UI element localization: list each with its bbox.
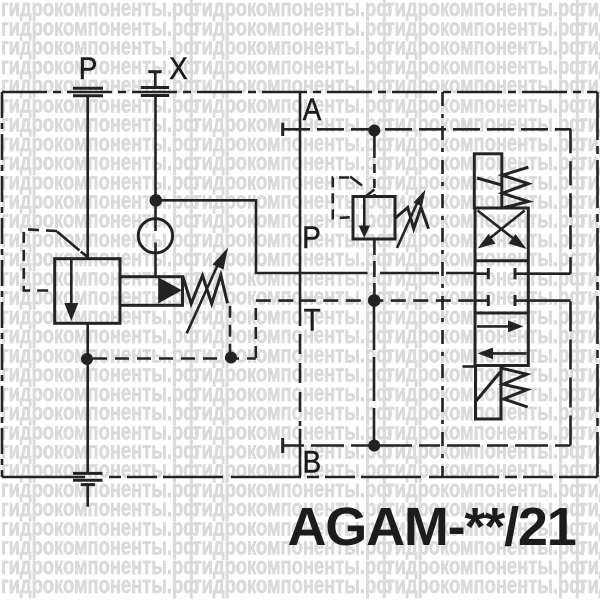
junction dot B bbox=[368, 440, 380, 452]
svg-text:A: A bbox=[303, 92, 322, 127]
dc valve pilot stub bbox=[463, 365, 476, 368]
junction dot A bbox=[368, 125, 380, 137]
wire pilot valve to T bbox=[373, 239, 376, 295]
label P mid bbox=[302, 220, 320, 255]
drain dashed from spring end bbox=[229, 306, 232, 352]
enclosure frame bottom bbox=[2, 476, 598, 479]
dc valve center blocked ports bbox=[475, 268, 528, 306]
enclosure frame right bbox=[596, 92, 599, 477]
relief seat chamber rectangle bbox=[120, 277, 183, 306]
relief adjust arrow bbox=[187, 248, 228, 334]
junction dot T bbox=[368, 294, 381, 307]
wire through orifice bbox=[154, 219, 157, 277]
svg-text:гидрокомпоненты.рф: гидрокомпоненты.рф bbox=[194, 570, 392, 598]
junction dot drain P line bbox=[81, 353, 93, 365]
wire X pilot line bbox=[154, 96, 157, 219]
svg-text:B: B bbox=[303, 445, 321, 480]
dc valve top spring box bbox=[474, 154, 502, 208]
port B tick bbox=[281, 438, 284, 453]
pilot line diagonal to P inlet bbox=[81, 252, 88, 257]
main relief cartridge body bbox=[55, 259, 120, 324]
label A bbox=[303, 92, 322, 127]
junction dot drain spring bbox=[225, 352, 237, 364]
port P label bbox=[79, 51, 97, 86]
svg-text:P: P bbox=[302, 220, 320, 255]
wire T line dashed bbox=[256, 299, 475, 302]
relief poppet triangle bbox=[158, 277, 182, 303]
orifice circle bbox=[138, 219, 172, 253]
pilot relief flow arrow bbox=[359, 190, 375, 239]
wire A dot to pilot valve bbox=[373, 136, 376, 197]
svg-text:T: T bbox=[304, 303, 321, 338]
svg-text:гидрокомпоненты.рф: гидрокомпоненты.рф bbox=[580, 570, 600, 598]
dc valve bottom spring bbox=[476, 368, 528, 407]
port X plug cap bbox=[148, 72, 161, 88]
port X label bbox=[169, 51, 188, 86]
pilot relief adjust arrow bbox=[397, 190, 426, 249]
svg-text:X: X bbox=[169, 51, 188, 86]
label B bbox=[303, 445, 321, 480]
enclosure separator line bbox=[441, 92, 444, 477]
pilot dashed loop left bbox=[24, 229, 80, 290]
stub B to valve bbox=[528, 299, 570, 302]
enclosure frame top bbox=[2, 91, 598, 94]
dc valve arrow right bbox=[477, 321, 524, 333]
wire A line bbox=[283, 128, 571, 131]
junction dot X pilot bbox=[150, 194, 163, 207]
drain dashed riser bbox=[255, 301, 258, 358]
port P symbol bbox=[73, 88, 103, 96]
dc valve main body bbox=[475, 208, 528, 366]
pilot relief sensing dashes bbox=[333, 177, 362, 219]
wire P inlet bbox=[86, 97, 89, 259]
label T bbox=[304, 303, 321, 338]
svg-text:P: P bbox=[79, 51, 97, 86]
pilot relief valve body bbox=[353, 197, 395, 240]
main poppet flow arrow bbox=[64, 260, 78, 321]
wire X vent to P channel bbox=[161, 200, 475, 273]
port A tick bbox=[281, 123, 284, 136]
dc valve bottom spring box bbox=[476, 366, 502, 420]
dc valve crossed arrows bbox=[478, 211, 527, 250]
svg-text:AGAM-**/21: AGAM-**/21 bbox=[288, 497, 576, 557]
pilot relief spring bbox=[395, 207, 428, 228]
svg-text:гидрокомпоненты.рф: гидрокомпоненты.рф bbox=[387, 570, 585, 598]
feedback A riser bbox=[569, 129, 572, 273]
stub A to valve bbox=[528, 272, 570, 275]
dc valve top spring bbox=[477, 167, 528, 208]
wire main valve to tank bbox=[86, 323, 89, 473]
wire T to B channel bbox=[373, 306, 376, 440]
wire B line bbox=[283, 444, 571, 447]
feedback B riser bbox=[569, 301, 572, 446]
title AGAM-**/21 bbox=[288, 497, 576, 557]
P channel vertical bbox=[299, 92, 302, 477]
svg-text:гидрокомпоненты.рф: гидрокомпоненты.рф bbox=[1, 570, 199, 598]
port X symbol bbox=[141, 88, 169, 96]
dc valve arrow left bbox=[478, 348, 527, 360]
tank symbol bbox=[73, 473, 103, 506]
enclosure frame left bbox=[1, 92, 4, 477]
relief spring bbox=[183, 275, 228, 304]
drain dashed horizontal bbox=[93, 357, 256, 360]
